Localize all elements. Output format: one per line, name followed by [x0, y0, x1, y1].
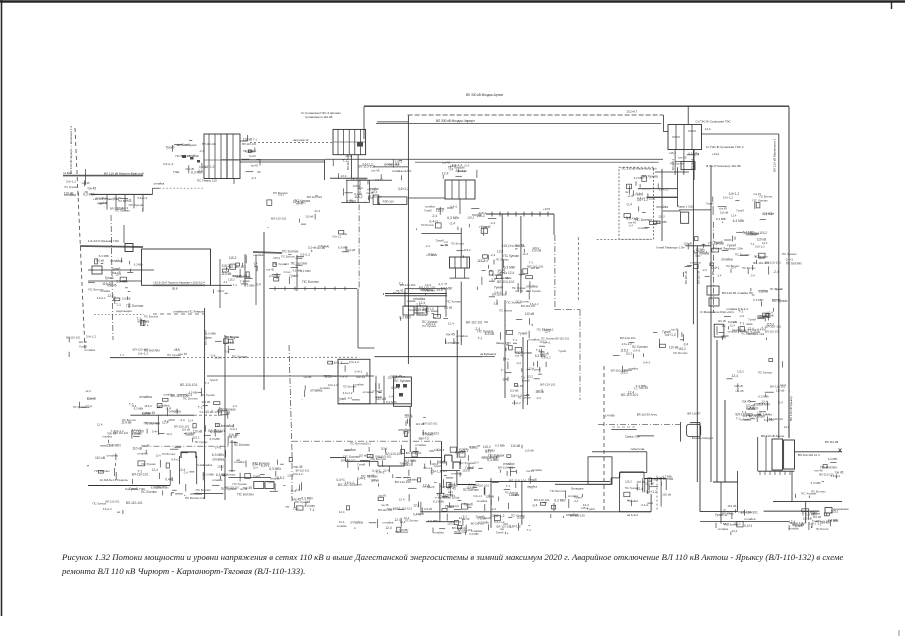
svg-text:Гуниб: Гуниб: [749, 318, 757, 322]
svg-text:6,3 МВт: 6,3 МВт: [554, 499, 566, 503]
svg-text:0,4+1: 0,4+1: [391, 386, 400, 390]
wire chain V x522: [521, 481, 523, 524]
svg-text:-2,4: -2,4: [491, 277, 496, 281]
svg-text:Т-1: Т-1: [253, 138, 258, 142]
svg-text:115,2: 115,2: [222, 264, 230, 268]
svg-text:Новол 1 Хл: Новол 1 Хл: [790, 521, 805, 525]
svg-text:110 кВ: 110 кВ: [303, 375, 311, 379]
svg-text:ток 45: ток 45: [146, 411, 155, 415]
substation F staircase right1: [646, 452, 648, 473]
wire dashdot H y424: [598, 423, 680, 425]
svg-text:0,4+1: 0,4+1: [440, 469, 448, 473]
svg-text:отпайка: отпайка: [528, 338, 540, 342]
svg-text:115,2: 115,2: [669, 151, 676, 155]
svg-text:110 кВ: 110 кВ: [204, 410, 214, 414]
cluster chain band: [337, 442, 543, 490]
svg-text:3,6+1,2: 3,6+1,2: [293, 472, 303, 476]
svg-text:3,6+1,2: 3,6+1,2: [163, 162, 174, 166]
svg-text:на 6,3+2: на 6,3+2: [627, 513, 638, 517]
wire BL H1 dashed ext: [194, 414, 223, 416]
svg-text:6,3 МВт: 6,3 МВт: [210, 437, 221, 441]
svg-text:-2,4: -2,4: [516, 361, 521, 365]
svg-text:ток 45: ток 45: [375, 177, 383, 181]
svg-text:-2,4: -2,4: [739, 314, 744, 318]
svg-text:3,6+1,2: 3,6+1,2: [817, 519, 827, 523]
svg-text:12,4: 12,4: [450, 494, 456, 498]
svg-text:6,3 МВт: 6,3 МВт: [828, 518, 839, 522]
svg-text:-2,4: -2,4: [432, 214, 438, 218]
wire V x648: [647, 479, 649, 495]
wire TETs bottom bus: [338, 403, 411, 405]
wire Kizilyurt drop x461: [460, 228, 462, 257]
wire H y210: [679, 209, 711, 211]
wire Yaryksu east H y452: [795, 451, 843, 453]
svg-text:ВЛ-110-101: ВЛ-110-101: [769, 417, 784, 421]
node left bus box: [92, 266, 102, 274]
wire H y376: [207, 375, 374, 377]
wire vertical x264 long: [263, 232, 265, 390]
svg-text:отпайка: отпайка: [187, 154, 199, 158]
svg-text:ток 45: ток 45: [742, 400, 751, 404]
svg-text:отпайка: отпайка: [721, 257, 733, 261]
substation F inner box: [588, 457, 612, 485]
svg-text:12,4: 12,4: [253, 466, 259, 470]
substation F staircase bottom: [619, 511, 651, 513]
svg-text:Гуниб: Гуниб: [494, 286, 503, 290]
svg-text:3,6+1,2: 3,6+1,2: [764, 212, 773, 216]
svg-text:себестоим: себестоим: [631, 447, 645, 451]
svg-text:3,6+1,2: 3,6+1,2: [659, 188, 669, 192]
wire NE east vertical x779: [778, 134, 780, 438]
wire mid H east y356: [375, 356, 483, 358]
wire left small bus y270: [88, 269, 154, 271]
svg-text:-2,4: -2,4: [251, 176, 257, 180]
svg-text:ПС Хунзах: ПС Хунзах: [195, 440, 208, 444]
svg-text:3,6+1,2: 3,6+1,2: [103, 507, 113, 511]
svg-text:ПС Ботлих: ПС Ботлих: [118, 199, 132, 203]
svg-text:Т-1: Т-1: [198, 406, 203, 410]
wire F C-shape vertical x700: [699, 423, 701, 512]
svg-text:-2,4: -2,4: [683, 343, 689, 347]
substation Kizilyurt internals: [454, 257, 456, 268]
svg-text:отпайка: отпайка: [415, 443, 426, 447]
svg-text:Белиджи: Белиджи: [571, 487, 583, 491]
svg-text:ПС Хунзах: ПС Хунзах: [758, 371, 773, 375]
svg-text:115,2: 115,2: [324, 374, 332, 378]
svg-text:110 кВ: 110 кВ: [525, 448, 534, 452]
svg-text:0,4+1: 0,4+1: [230, 427, 238, 431]
svg-text:0,4+1: 0,4+1: [355, 369, 363, 373]
wire dotted H y314 west: [94, 313, 144, 315]
cluster small below dotted: [136, 315, 159, 326]
svg-text:ПС Хунзах: ПС Хунзах: [220, 408, 236, 412]
wire chain V x491: [490, 478, 492, 528]
svg-text:ПС Ботлих: ПС Ботлих: [786, 261, 802, 265]
wire H y429: [611, 428, 636, 430]
wire below TETs vertical x410: [409, 406, 411, 452]
cluster below chain 335-505: [337, 503, 393, 529]
svg-text:ВЛ-110-101: ВЛ-110-101: [271, 217, 287, 221]
svg-text:отпайка: отпайка: [740, 418, 751, 422]
svg-text:12,4: 12,4: [399, 497, 405, 501]
svg-text:ВЛ-110-34: ВЛ-110-34: [697, 270, 701, 284]
cluster F inner: [645, 475, 673, 497]
svg-text:6,3 МВт: 6,3 МВт: [134, 263, 144, 267]
svg-text:Т-1: Т-1: [233, 283, 238, 287]
svg-text:ПС Ботлих: ПС Ботлих: [726, 264, 740, 268]
svg-text:-2,4: -2,4: [702, 268, 707, 272]
svg-text:ПС Ботлих: ПС Ботлих: [141, 490, 157, 494]
wire H y167 with label: [373, 166, 408, 168]
svg-text:110 кВ: 110 кВ: [662, 493, 671, 497]
svg-text:12,4: 12,4: [508, 271, 514, 275]
svg-text:12,4: 12,4: [474, 461, 480, 465]
svg-text:Гуниб: Гуниб: [737, 208, 745, 212]
svg-text:отпайка: отпайка: [350, 520, 363, 524]
svg-text:Гуниб: Гуниб: [182, 143, 190, 147]
svg-text:115,2: 115,2: [470, 446, 478, 450]
wire chain H y481 long: [476, 480, 611, 482]
substation rectangle Gotsatl: [142, 249, 211, 285]
svg-text:115,2: 115,2: [448, 484, 456, 488]
svg-text:Гуниб: Гуниб: [267, 480, 275, 484]
svg-text:ВЛ-110-101: ВЛ-110-101: [497, 280, 514, 284]
svg-text:ток 45: ток 45: [251, 164, 259, 168]
svg-text:115,2: 115,2: [581, 506, 588, 510]
svg-text:1,6+10,5 Ирганай ГЭС: 1,6+10,5 Ирганай ГЭС: [88, 239, 120, 243]
wire vertical feeder x725 gray: [724, 400, 726, 482]
svg-text:отпайка: отпайка: [456, 334, 468, 338]
wire vertical feeder x713 dashdot: [713, 222, 715, 313]
substation TETs box: [338, 359, 370, 404]
svg-text:6,3 МВт: 6,3 МВт: [485, 448, 495, 452]
wire BR H y511 gray: [764, 510, 820, 512]
svg-text:-2,4: -2,4: [464, 163, 470, 167]
svg-text:115,2: 115,2: [625, 480, 632, 484]
svg-text:отпайка: отпайка: [139, 395, 152, 399]
svg-text:отпайка: отпайка: [433, 531, 444, 535]
svg-text:ПС Ботлих: ПС Ботлих: [350, 442, 365, 446]
svg-text:Т-1: Т-1: [120, 353, 125, 357]
svg-text:3,6+1,2: 3,6+1,2: [138, 351, 149, 355]
svg-text:отпайка: отпайка: [426, 253, 437, 257]
svg-text:ПС Ботлих: ПС Ботлих: [421, 223, 435, 227]
svg-text:115,2: 115,2: [276, 476, 284, 480]
svg-text:Гуниб: Гуниб: [528, 478, 537, 482]
svg-text:ВЛ-110-101: ВЛ-110-101: [307, 195, 323, 199]
svg-text:115,2: 115,2: [466, 486, 474, 490]
wire BL dashdot y446: [142, 445, 228, 447]
svg-text:Т-1: Т-1: [501, 368, 506, 372]
wire dashes x657: [656, 476, 658, 510]
svg-text:ВЛ 110 кВ Миатли-Бавтугай: ВЛ 110 кВ Миатли-Бавтугай: [104, 172, 144, 176]
caption figure 1.32: [62, 551, 902, 578]
svg-text:Гуниб: Гуниб: [373, 390, 382, 394]
svg-text:Гуниб: Гуниб: [478, 517, 486, 521]
substation Makhachkala-330 internals: [624, 174, 669, 230]
wire box right edge x325: [324, 160, 326, 180]
svg-text:6,3 МВт: 6,3 МВт: [758, 395, 769, 399]
svg-text:0,4+1: 0,4+1: [543, 340, 551, 344]
wire vertical x220: [219, 259, 221, 308]
svg-text:ток 45: ток 45: [396, 288, 404, 292]
wire dash y427: [612, 426, 636, 428]
svg-text:ток 45: ток 45: [292, 497, 301, 501]
svg-text:0,4+1: 0,4+1: [757, 328, 765, 332]
wire vertical x408: [407, 115, 409, 364]
wire Kizilyurt down x462: [460, 282, 462, 345]
wire short vertical x124: [123, 225, 125, 243]
svg-text:Гуниб: Гуниб: [347, 200, 356, 204]
svg-text:отпайка: отпайка: [408, 478, 418, 482]
svg-text:110 кВ: 110 кВ: [525, 312, 535, 316]
svg-text:115,2: 115,2: [193, 436, 200, 440]
svg-text:отпайка: отпайка: [212, 457, 224, 461]
svg-text:отпайка: отпайка: [85, 348, 96, 352]
wire bus drop into NE box: [687, 107, 689, 125]
svg-text:отпайка: отпайка: [448, 341, 460, 345]
wire Irganai bus thick: [80, 246, 143, 247]
wire H y172: [655, 171, 689, 173]
wire H y436: [637, 435, 654, 437]
svg-text:ток 45: ток 45: [735, 389, 744, 393]
svg-text:3,6+1,2: 3,6+1,2: [332, 235, 342, 239]
svg-text:3,6+1,2: 3,6+1,2: [637, 198, 648, 202]
svg-text:ПС Ботлих: ПС Ботлих: [816, 527, 830, 531]
cluster left margin y335: [66, 335, 96, 357]
svg-text:Гуниб: Гуниб: [87, 396, 95, 400]
cluster column x505-540 mid: [501, 327, 556, 405]
svg-text:-2,4: -2,4: [574, 499, 579, 503]
wire V x757: [757, 437, 759, 471]
wire Chiryurt bus y180 gray: [346, 179, 392, 181]
svg-text:6,3 МВт: 6,3 МВт: [469, 532, 479, 536]
svg-text:-2,4: -2,4: [179, 418, 185, 422]
svg-text:12,2: 12,2: [784, 425, 790, 429]
svg-text:-2,4: -2,4: [347, 396, 352, 400]
svg-text:3,6+1,2: 3,6+1,2: [300, 252, 310, 256]
svg-text:12,4: 12,4: [394, 518, 400, 522]
wire vertical x256: [255, 255, 257, 305]
wire mb crossing H y197 thick: [647, 196, 678, 198]
svg-text:ток 45: ток 45: [113, 196, 121, 200]
svg-text:110 кВ: 110 кВ: [728, 320, 737, 324]
svg-text:ВЛ-110-132 12,4: ВЛ-110-132 12,4: [798, 453, 820, 457]
svg-text:6,3 МВт: 6,3 МВт: [134, 406, 144, 410]
svg-text:ток 45: ток 45: [446, 333, 455, 337]
cluster PS Botlih SE: [286, 497, 316, 512]
svg-text:отпайка: отпайка: [718, 527, 729, 531]
svg-text:ВЛ-110-101: ВЛ-110-101: [497, 524, 513, 528]
svg-text:6,3 МВт: 6,3 МВт: [205, 331, 217, 335]
svg-text:3,6+1,2: 3,6+1,2: [473, 494, 482, 498]
wire bundle tail x721: [720, 482, 722, 524]
svg-text:Гуниб: Гуниб: [166, 145, 175, 149]
wire chain H1 y457: [330, 457, 346, 459]
svg-text:14,3: 14,3: [705, 127, 711, 131]
svg-text:12,4: 12,4: [442, 171, 449, 175]
wire tick x85: [85, 169, 87, 185]
svg-text:Т-1: Т-1: [477, 337, 482, 341]
wire dash V x578: [577, 237, 579, 300]
svg-text:115,2: 115,2: [759, 231, 767, 235]
svg-text:-2,4: -2,4: [438, 282, 443, 286]
svg-text:-2,4: -2,4: [750, 273, 755, 277]
svg-text:6,3 МВт: 6,3 МВт: [535, 354, 547, 358]
svg-text:34,8+1,5 Гоцатль: 34,8+1,5 Гоцатль: [105, 478, 128, 482]
wire steps east: [555, 483, 611, 485]
svg-text:ток 45: ток 45: [515, 289, 523, 293]
wire 330kV bus 3 dashed: [376, 123, 661, 125]
substation TETs box2: [394, 377, 412, 406]
svg-text:Гуниб: Гуниб: [480, 225, 488, 229]
svg-text:115,2: 115,2: [273, 256, 280, 260]
svg-text:Гуниб: Гуниб: [714, 240, 723, 244]
cluster x462 chain labels: [446, 320, 496, 344]
svg-text:отпайка: отпайка: [169, 409, 181, 413]
wire Makhachkala double A: [385, 293, 447, 295]
svg-text:110 кВ: 110 кВ: [347, 248, 355, 252]
substation PS Chiryurt box: [445, 180, 475, 199]
svg-text:-2,4: -2,4: [628, 223, 633, 227]
svg-text:отпайка: отпайка: [638, 226, 648, 230]
svg-text:та Бет: та Бет: [63, 171, 72, 175]
svg-text:115,2: 115,2: [483, 445, 491, 449]
svg-text:ЛЭП-110: ЛЭП-110: [383, 200, 395, 204]
svg-text:ВЛ-110-101: ВЛ-110-101: [174, 424, 190, 428]
cluster midright sparse: [736, 395, 775, 423]
svg-text:ВЛ-110-36 Ахты: ВЛ-110-36 Ахты: [637, 413, 657, 417]
svg-text:12,4: 12,4: [544, 330, 550, 334]
wire Chiryurt below-ladder verticals: [351, 155, 353, 179]
svg-text:отпайка: отпайка: [754, 402, 765, 406]
svg-text:0,4+1: 0,4+1: [786, 258, 794, 262]
svg-text:115,2: 115,2: [380, 447, 387, 451]
substation boxes below Makhachkala line: [403, 306, 414, 315]
substation F staircase step: [619, 472, 646, 474]
svg-text:6,3 МВт: 6,3 МВт: [189, 391, 199, 395]
wire dotted link to PS box: [159, 187, 203, 189]
substation Kizilyurt box: [450, 257, 470, 268]
svg-text:Т-1: Т-1: [536, 348, 541, 352]
substation staples chain: [444, 455, 446, 462]
svg-text:ПС Ботлих: ПС Ботлих: [282, 250, 299, 254]
svg-text:-2,4: -2,4: [773, 270, 779, 274]
svg-text:Т-1: Т-1: [634, 386, 639, 390]
svg-text:отпайка: отпайка: [744, 517, 756, 521]
wire F C-shape west: [690, 422, 700, 424]
svg-text:Т-1: Т-1: [175, 347, 179, 351]
wire east H end tick: [839, 449, 842, 452]
svg-text:ПС Ботлих: ПС Ботлих: [738, 510, 753, 514]
svg-text:ВЛ-110-101: ВЛ-110-101: [419, 286, 436, 290]
svg-text:ВЛ-110-37: ВЛ-110-37: [688, 412, 702, 416]
svg-text:ВЛ-110-105: ВЛ-110-105: [358, 180, 362, 195]
svg-text:Гуниб: Гуниб: [496, 530, 504, 534]
wire chain H y470: [442, 470, 461, 472]
svg-text:110 кВ: 110 кВ: [317, 246, 325, 250]
cluster right of ladder: [242, 138, 261, 181]
wire H y521 long: [700, 521, 789, 523]
wire BL H1 y415: [130, 414, 194, 416]
svg-text:ПС Ботлих: ПС Ботлих: [225, 335, 239, 339]
svg-text:ВЛ-110-101: ВЛ-110-101: [338, 483, 355, 487]
svg-text:ВЛ-110-101: ВЛ-110-101: [466, 320, 483, 324]
svg-text:-2,4: -2,4: [199, 149, 204, 153]
svg-text:12,4: 12,4: [528, 366, 534, 370]
svg-text:6,3 МВт: 6,3 МВт: [447, 216, 459, 220]
svg-text:ТЭЦ: ТЭЦ: [173, 170, 180, 174]
cluster right of Kizilyurt box: [477, 255, 514, 290]
svg-text:6,3 МВт: 6,3 МВт: [716, 217, 727, 221]
cluster left margin y390: [73, 389, 96, 409]
svg-text:Аухновская: Аухновская: [833, 507, 849, 511]
svg-text:ВЛ-110-101: ВЛ-110-101: [296, 469, 310, 473]
svg-text:Гуниб: Гуниб: [706, 202, 714, 206]
svg-text:12,4: 12,4: [522, 252, 528, 256]
cluster cl530: [532, 489, 596, 518]
wire left bus 2: [91, 193, 153, 195]
node ticks on H288: [274, 287, 276, 291]
svg-text:-2,4: -2,4: [415, 303, 421, 307]
substation rounded box Botlikh: [687, 424, 701, 436]
wire BR long H y502: [773, 501, 842, 503]
wire Yaryksu bottom bus: [758, 470, 795, 472]
wire F inner verticals: [642, 478, 644, 492]
page top border: [0, 0, 905, 2]
svg-text:110 кВ: 110 кВ: [486, 495, 494, 499]
svg-text:115,2: 115,2: [364, 442, 371, 446]
svg-text:110 кВ: 110 кВ: [535, 390, 543, 394]
svg-text:ВЛ-110-101: ВЛ-110-101: [132, 472, 149, 476]
cluster tail marks: [715, 504, 758, 535]
svg-text:ПС Ботлих: ПС Ботлих: [302, 280, 319, 284]
svg-text:ПС Ботлих: ПС Ботлих: [343, 384, 357, 388]
svg-text:12,4: 12,4: [731, 213, 737, 217]
svg-text:отпайка: отпайка: [310, 388, 322, 392]
svg-text:12,4: 12,4: [188, 419, 194, 423]
svg-text:110 кВ: 110 кВ: [308, 246, 317, 250]
cluster mid-left text rows: [163, 140, 217, 174]
cluster sparse 300-230: [308, 231, 356, 253]
svg-text:ВЛ-110-101: ВЛ-110-101: [341, 458, 356, 462]
svg-text:12,4: 12,4: [732, 374, 739, 378]
cluster right of col dashes: [534, 327, 570, 367]
wire Chiryurt descend verticals: [346, 180, 348, 202]
svg-text:Самур 1 Вч: Самур 1 Вч: [625, 435, 640, 439]
svg-text:Гуниб: Гуниб: [253, 474, 260, 478]
svg-text:ПС Хунзах: ПС Хунзах: [499, 308, 512, 312]
svg-text:Т-1: Т-1: [343, 159, 348, 163]
svg-text:3,6+1,2: 3,6+1,2: [511, 394, 522, 398]
svg-text:ПС Ботлих: ПС Ботлих: [122, 418, 137, 422]
wire below-box vertical x792: [791, 471, 793, 501]
svg-text:Т-1: Т-1: [164, 419, 169, 423]
cluster left of TETs: [302, 361, 346, 401]
svg-text:ток 45: ток 45: [141, 444, 150, 448]
wire chain boxes x707-719: [707, 286, 719, 295]
svg-text:115,2: 115,2: [404, 413, 412, 417]
svg-text:6,3 МВт: 6,3 МВт: [433, 500, 445, 504]
node bus tickmarks: [491, 212, 493, 217]
svg-text:ПС Ботлих: ПС Ботлих: [390, 374, 405, 378]
wire vertical x521 from bus: [520, 216, 522, 293]
wire ladder right step: [240, 140, 248, 142]
svg-text:Гуниб: Гуниб: [519, 332, 528, 336]
wire chain step2: [377, 461, 379, 466]
svg-text:ВЛ-110-101: ВЛ-110-101: [66, 336, 81, 340]
substation Chiryurt ladder internals: [337, 129, 339, 154]
